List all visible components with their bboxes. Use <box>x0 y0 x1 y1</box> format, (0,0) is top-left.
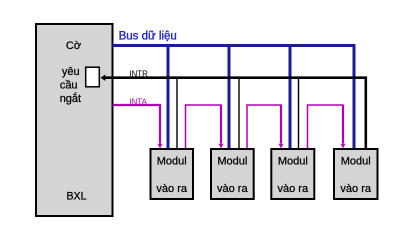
svg-text:Cờ: Cờ <box>66 40 81 52</box>
svg-text:Modul: Modul <box>341 156 371 168</box>
svg-text:vào ra: vào ra <box>278 183 309 195</box>
svg-text:Modul: Modul <box>217 156 247 168</box>
svg-text:INTR: INTR <box>129 70 148 79</box>
svg-text:BXL: BXL <box>66 191 86 203</box>
svg-text:Modul: Modul <box>278 156 308 168</box>
svg-text:yêu: yêu <box>62 66 80 78</box>
svg-text:vào ra: vào ra <box>156 183 187 195</box>
svg-text:cầu: cầu <box>60 80 78 92</box>
svg-text:vào ra: vào ra <box>340 183 371 195</box>
svg-text:Bus dữ liệu: Bus dữ liệu <box>119 31 177 43</box>
svg-text:ngắt: ngắt <box>60 92 81 105</box>
svg-text:INTA: INTA <box>129 97 147 106</box>
svg-text:vào ra: vào ra <box>217 183 248 195</box>
svg-text:Modul: Modul <box>157 156 187 168</box>
